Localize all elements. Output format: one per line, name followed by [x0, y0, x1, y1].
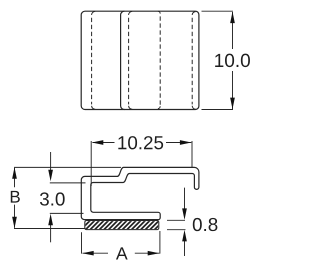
dim A dimension line left	[83, 252, 109, 254]
label B	[11, 191, 20, 203]
dim 10.0 extension line bottom	[202, 109, 234, 111]
thermal pad outline	[85, 221, 159, 230]
top view hidden fold line (left inner radius)	[92, 11, 96, 109]
dim 0.8 lower arrow shaft	[184, 241, 186, 256]
dim 0.8 extension line upper	[167, 219, 185, 221]
label A	[116, 247, 128, 259]
dim 0.8 upper arrow shaft	[184, 188, 186, 210]
dim A dimension line right	[135, 252, 160, 254]
dim 3.0 extension line lower	[50, 212, 84, 214]
dim 10.0 arrow up	[230, 12, 235, 24]
dim 10.25 extension line right	[191, 141, 193, 168]
dim 0.8 arrow up (lower)	[182, 230, 187, 242]
top view hidden fold line (jog lower edge)	[129, 11, 133, 109]
dim 10.25 extension line left	[90, 141, 92, 186]
dim 10.25 arrow left	[92, 140, 104, 145]
label 10.0	[215, 54, 250, 67]
dim 3.0 upper arrow shaft	[50, 152, 52, 172]
dim 10.0 dimension line	[232, 12, 234, 109]
dim B arrow up	[12, 167, 17, 179]
dim 3.0 arrow down (upper)	[48, 170, 53, 182]
dim B arrow down	[12, 217, 17, 229]
label 10.25	[118, 136, 163, 149]
label 0.8	[193, 218, 218, 231]
hatch of thermal pad	[76, 218, 171, 230]
dim 3.0 lower arrow shaft	[50, 224, 52, 243]
top view hidden line (hook inner)	[192, 12, 195, 110]
dim A extension line right	[159, 231, 161, 254]
dim 10.0 arrow down	[230, 98, 235, 110]
top view hidden fold line (left inner radius) dashes	[91, 16, 93, 104]
dim B extension line bottom	[14, 228, 85, 230]
side view profile outline	[81, 167, 199, 219]
dim B extension line top	[14, 166, 121, 168]
dim 3.0 arrow up (lower)	[48, 214, 53, 226]
dim 10.25 arrow right	[180, 140, 192, 145]
label 3.0	[40, 192, 65, 205]
dim 10.0 extension line top	[202, 10, 234, 12]
dim B dimension line	[14, 168, 16, 228]
dim 10.25 dimension line	[93, 142, 192, 144]
dim A arrow right	[148, 251, 160, 256]
dim A arrow left	[82, 251, 94, 256]
dim 0.8 extension line lower	[167, 229, 186, 231]
top view hidden line (plate end)	[158, 11, 160, 108]
dim 3.0 extension line upper	[50, 182, 86, 184]
top view hidden fold line (jog lower edge) dashes	[128, 16, 130, 104]
dim A extension line left	[81, 232, 83, 253]
top view hidden line (plate end) dashes	[159, 15, 161, 105]
top view hidden line (hook inner) dashes	[191, 16, 193, 104]
top view visible fold edge	[121, 11, 125, 109]
dim 0.8 arrow down (upper)	[182, 208, 187, 220]
top view outer outline	[81, 11, 199, 109]
